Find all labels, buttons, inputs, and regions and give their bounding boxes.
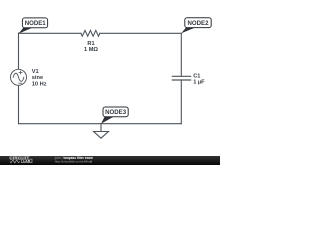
svg-text:V1: V1	[32, 69, 39, 75]
svg-text:R1: R1	[87, 41, 94, 47]
svg-text:NODE2: NODE2	[188, 20, 210, 27]
svg-text:http://circuitlab.com/c64xq8: http://circuitlab.com/c64xq8	[55, 160, 93, 164]
svg-text:C1: C1	[193, 73, 200, 79]
svg-text:LAB: LAB	[23, 159, 31, 163]
svg-text:1 µF: 1 µF	[193, 80, 205, 86]
svg-text:10 Hz: 10 Hz	[32, 81, 47, 87]
svg-text:1 MΩ: 1 MΩ	[84, 47, 98, 53]
svg-text:NODE3: NODE3	[105, 109, 127, 116]
svg-text:NODE1: NODE1	[25, 20, 47, 27]
svg-text:sine: sine	[32, 75, 43, 81]
